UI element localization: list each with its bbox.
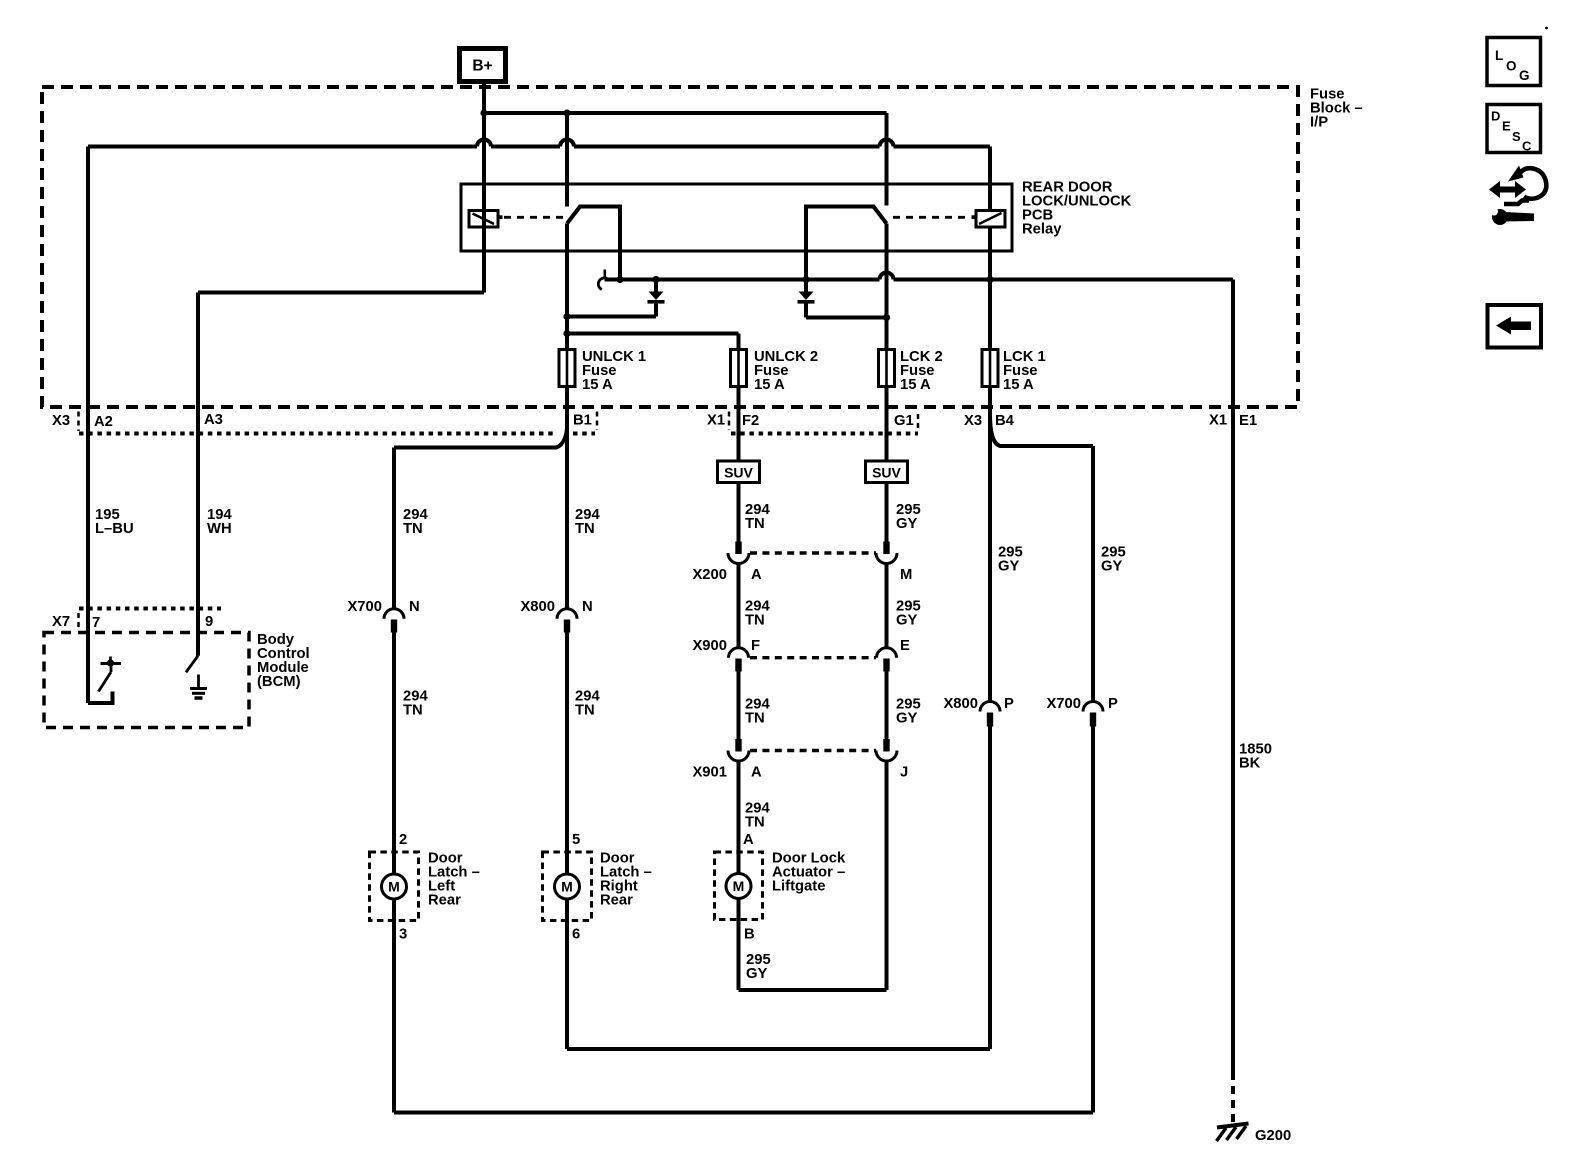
svg-text:A: A [751, 567, 762, 583]
svg-text:X800: X800 [520, 599, 555, 615]
wire lock coil feed drop [988, 147, 992, 211]
svg-text:WH: WH [207, 521, 232, 537]
svg-text:BK: BK [1239, 756, 1261, 772]
wire X200 to X900 [737, 564, 741, 649]
wire branch to left latch y447 [394, 446, 557, 450]
wire A3 vertical [196, 293, 200, 656]
svg-text:D: D [1491, 109, 1500, 124]
svg-text:P: P [1108, 696, 1118, 712]
svg-text:X7: X7 [52, 614, 70, 630]
unlock relay coil K1 [469, 211, 498, 228]
BCM ground stub [197, 675, 200, 688]
wire X901 to liftgate actuator [737, 761, 741, 874]
unlock relay coil dashed link [504, 216, 563, 219]
svg-text:GY: GY [1101, 559, 1123, 575]
junction NC left [616, 276, 623, 283]
battery feed B+ box [460, 49, 506, 82]
svg-text:GY: GY [896, 613, 918, 629]
lock relay arm [806, 207, 887, 292]
wire M to E [885, 564, 889, 649]
connector X200-A [735, 542, 741, 555]
connector X901-A [735, 739, 741, 752]
svg-text:TN: TN [745, 815, 765, 831]
door latch right rear box [543, 852, 592, 921]
svg-text:F: F [751, 638, 760, 654]
connector face dotted line [79, 432, 556, 436]
svg-text:N: N [409, 599, 420, 615]
svg-text:L: L [1495, 48, 1503, 63]
wire X900 to X901 [737, 672, 741, 740]
svg-text:G1: G1 [894, 413, 914, 429]
wire A3 horizontal y292 [198, 291, 484, 295]
wire UNLCK2 fuse drop [737, 334, 741, 351]
svg-text:J: J [900, 765, 908, 781]
wire pin6 to X800P [567, 1047, 990, 1051]
stray dot [1545, 27, 1548, 30]
icon DESC box [1487, 105, 1541, 153]
junction lock coil return [986, 276, 993, 283]
connector X200-M [883, 542, 889, 555]
connector X700-N [384, 609, 404, 619]
junction unlock feed y113 [563, 109, 570, 116]
svg-text:B1: B1 [573, 413, 592, 429]
svg-text:X800: X800 [943, 696, 978, 712]
svg-text:X901: X901 [692, 765, 727, 781]
tick G1 [917, 414, 920, 432]
svg-text:2: 2 [399, 832, 407, 848]
wire E to J [885, 672, 889, 740]
door latch right rear motor [555, 874, 580, 899]
svg-text:SUV: SUV [724, 465, 753, 481]
wire B1 branch curve [556, 428, 567, 448]
SUV box 1 [718, 461, 760, 483]
svg-text:TN: TN [745, 711, 765, 727]
hop y145 over x567 [560, 140, 574, 150]
wire X800P down [988, 727, 992, 1050]
diode D1 [654, 280, 658, 292]
svg-text:M: M [561, 879, 573, 895]
svg-text:O: O [1506, 59, 1517, 74]
svg-text:I/P: I/P [1310, 115, 1328, 131]
junction D1 arm [563, 313, 570, 320]
svg-text:X3: X3 [964, 413, 982, 429]
wire left latch upper [392, 633, 396, 875]
svg-text:E: E [900, 638, 910, 654]
wire 294 TN left upper [392, 448, 396, 611]
svg-text:M: M [388, 879, 400, 895]
wire 294 TN right upper [565, 444, 569, 610]
wire SUV1 to X200 [737, 483, 741, 543]
svg-text:A2: A2 [94, 414, 113, 430]
svg-text:X900: X900 [692, 638, 727, 654]
wire A2 vertical [86, 147, 90, 704]
svg-text:GY: GY [896, 516, 918, 532]
svg-text:Rear: Rear [428, 893, 461, 909]
svg-text:GY: GY [896, 711, 918, 727]
icon back arrow [1496, 317, 1531, 335]
diode D2 [799, 292, 814, 301]
svg-text:X700: X700 [1046, 696, 1081, 712]
tick X1/F2 [728, 412, 731, 431]
svg-text:L–BU: L–BU [95, 521, 134, 537]
junction D2 arm [883, 314, 890, 321]
wire B+ branch horizontal y113 [484, 111, 887, 115]
BCM switch 7 contact bar [101, 662, 122, 665]
svg-text:P: P [1004, 696, 1014, 712]
wire UNLCK1 to UNLCK2 feed y333 [567, 332, 739, 336]
door lock actuator motor [726, 874, 751, 899]
svg-text:E1: E1 [1239, 413, 1257, 429]
svg-text:TN: TN [403, 703, 423, 719]
ground G200 symbol [1217, 1124, 1249, 1128]
svg-text:TN: TN [745, 613, 765, 629]
wire G1 down [885, 387, 889, 462]
svg-text:G200: G200 [1255, 1128, 1291, 1144]
wire unlock relay feed x567 [565, 113, 569, 207]
svg-text:C: C [1522, 139, 1532, 154]
connector X900-E [877, 648, 897, 658]
svg-text:15 A: 15 A [900, 377, 931, 393]
svg-text:TN: TN [575, 703, 595, 719]
svg-text:E: E [1502, 119, 1511, 134]
wire lock coil feed y145 from A2 [88, 145, 990, 149]
fuse LCK 2 15A [879, 350, 895, 387]
dashed connector line X200 [750, 551, 876, 554]
wire J down [885, 761, 889, 990]
hop y145 over x886 [880, 140, 894, 150]
svg-text:B4: B4 [995, 413, 1015, 429]
svg-text:A: A [751, 765, 762, 781]
svg-text:X3: X3 [52, 413, 70, 429]
unlock relay arm [567, 207, 620, 281]
svg-text:TN: TN [575, 521, 595, 537]
tick B1 [596, 412, 599, 431]
lock coil return wire [988, 227, 992, 351]
svg-text:3: 3 [399, 927, 407, 943]
junction UNLCK feed [563, 330, 570, 337]
hop bus over x886 [880, 273, 894, 283]
door latch left rear motor [382, 874, 407, 899]
door latch left rear box [370, 852, 419, 921]
hop y145 over x484 [477, 140, 491, 150]
svg-text:15 A: 15 A [582, 377, 613, 393]
tick X3/A2 [77, 412, 80, 432]
svg-text:X200: X200 [692, 567, 727, 583]
wire D2 to lock arm [806, 316, 887, 320]
wire lock arm to LCK2 fuse [885, 224, 889, 351]
svg-text:5: 5 [572, 832, 580, 848]
relay ground bus y279 [605, 278, 1234, 282]
wire unlock arm to UNLCK fuses [565, 224, 569, 351]
svg-text:M: M [900, 567, 912, 583]
svg-text:(BCM): (BCM) [257, 674, 301, 690]
svg-text:B+: B+ [472, 58, 492, 75]
svg-text:SUV: SUV [872, 465, 901, 481]
wire E1 dashed tail [1231, 1072, 1235, 1122]
svg-text:9: 9 [205, 614, 213, 630]
junction B+ y113 [480, 109, 487, 116]
svg-text:TN: TN [403, 521, 423, 537]
Body Control Module box [44, 633, 249, 728]
svg-text:7: 7 [92, 615, 100, 631]
lock relay feed x886 [885, 113, 889, 206]
Fuse Block - I/P dashed boundary [42, 87, 1298, 407]
svg-text:F2: F2 [742, 413, 759, 429]
icon LOG box [1487, 38, 1541, 86]
door lock actuator liftgate box [715, 852, 763, 920]
wire D1 to unlock arm [567, 315, 656, 319]
fuse UNLCK 1 15A [559, 350, 575, 387]
SUV box 2 [866, 461, 908, 483]
BCM switch 7 arm [110, 665, 113, 672]
svg-text:15 A: 15 A [1003, 377, 1034, 393]
svg-text:Relay: Relay [1022, 222, 1062, 238]
svg-text:M: M [733, 878, 745, 894]
BCM connector dotted line X7 [79, 607, 221, 611]
wire X700P branch down [1091, 446, 1095, 702]
svg-text:15 A: 15 A [754, 377, 785, 393]
svg-text:G: G [1519, 68, 1530, 83]
wire B4 jog to X700P branch [990, 414, 1093, 446]
BCM switch 9 arm [186, 656, 198, 673]
connector X800-P [980, 702, 1000, 712]
lock relay coil K2 [976, 211, 1005, 228]
wire X700P down lower [1091, 727, 1095, 1113]
tick X7 [77, 613, 80, 630]
wire F2 down [737, 387, 741, 462]
svg-text:GY: GY [746, 966, 768, 982]
svg-text:6: 6 [572, 927, 580, 943]
svg-text:S: S [1512, 129, 1521, 144]
fuse UNLCK 2 15A [731, 350, 747, 387]
BCM switch 7 riser [88, 692, 113, 704]
junction diode D2 [802, 276, 809, 283]
wire B1 down [565, 387, 569, 445]
wire pin3 down [392, 899, 396, 1113]
wire X700P to pin3 [394, 1111, 1093, 1115]
connector X901-J [883, 739, 889, 752]
fuse LCK 1 15A [982, 350, 998, 387]
svg-text:Rear: Rear [600, 893, 633, 909]
svg-text:X700: X700 [347, 599, 382, 615]
svg-text:A3: A3 [204, 412, 223, 428]
wire pin B down [737, 899, 741, 991]
svg-text:X1: X1 [1209, 413, 1227, 429]
dashed connector line X900 [750, 656, 876, 659]
wire E1 drop [1231, 280, 1235, 1073]
svg-text:N: N [582, 599, 593, 615]
svg-text:A: A [743, 832, 754, 848]
REAR DOOR LOCK/UNLOCK PCB Relay box [461, 184, 1012, 251]
junction diode D1 [652, 276, 659, 283]
BCM ground bars [190, 687, 207, 690]
wire B+ vertical to coil/A3 [482, 82, 486, 293]
dashed connector line X901 [750, 749, 876, 752]
icon back box [1488, 305, 1542, 348]
svg-text:X1: X1 [707, 413, 725, 429]
svg-text:TN: TN [745, 516, 765, 532]
wire right latch upper [565, 633, 569, 875]
icon reroute arrows [1489, 181, 1526, 198]
svg-text:B: B [744, 927, 755, 943]
connector X900-F [729, 648, 749, 658]
terminal hook at relay bus [603, 270, 606, 278]
connector X700-P [1083, 702, 1103, 712]
wire SUV2 to X200M [885, 483, 889, 543]
svg-text:Liftgate: Liftgate [772, 879, 825, 895]
wire B to J column [739, 988, 887, 992]
connector X800-N [557, 609, 577, 619]
wire B4 down [988, 387, 992, 702]
lock relay coil dashed link [893, 216, 971, 219]
wire pin6 down [565, 899, 569, 1049]
svg-text:GY: GY [998, 559, 1020, 575]
